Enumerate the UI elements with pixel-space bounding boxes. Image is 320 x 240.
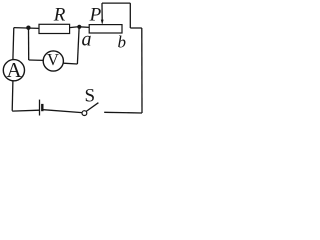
switch S1 pivot circle <box>82 111 87 116</box>
wire left vertical upper <box>12 28 15 60</box>
wire voltmeter left horizontal <box>29 59 44 61</box>
wire voltmeter right horizontal <box>63 62 77 65</box>
svg-text:P: P <box>89 5 102 26</box>
node a junction dot <box>77 25 81 29</box>
wire T1 down to voltmeter <box>28 28 30 60</box>
voltmeter V1 circle <box>43 51 63 71</box>
svg-text:b: b <box>118 33 127 52</box>
wire node a down to voltmeter <box>77 28 79 64</box>
rheostat P wiper stem <box>101 3 103 21</box>
wire right step vertical <box>129 3 131 28</box>
wire bottom-left horizontal <box>12 109 39 112</box>
wire top-left horizontal <box>14 27 39 30</box>
svg-text:R: R <box>53 5 66 26</box>
switch S1 lever <box>86 103 98 112</box>
battery B1 long plate <box>39 100 41 116</box>
wire right vertical <box>141 28 143 113</box>
rheostat P body box <box>89 25 122 33</box>
rheostat P wiper arrowhead <box>101 20 104 25</box>
wire resistor to node a <box>70 27 80 28</box>
wire right step horizontal <box>130 27 142 29</box>
ammeter A1 circle <box>3 60 24 81</box>
wire top-right horizontal <box>102 2 130 4</box>
node T1 junction dot <box>26 26 30 30</box>
svg-text:S: S <box>85 86 96 107</box>
resistor R1 body box <box>39 24 70 33</box>
svg-text:V: V <box>47 50 59 69</box>
wire left vertical lower <box>11 81 14 111</box>
wire battery to switch <box>43 110 82 113</box>
battery B1 short plate <box>41 104 43 111</box>
svg-text:a: a <box>82 28 92 50</box>
wire node a to rheostat <box>79 26 89 29</box>
svg-text:A: A <box>7 58 23 82</box>
wire switch to right corner <box>104 111 142 114</box>
